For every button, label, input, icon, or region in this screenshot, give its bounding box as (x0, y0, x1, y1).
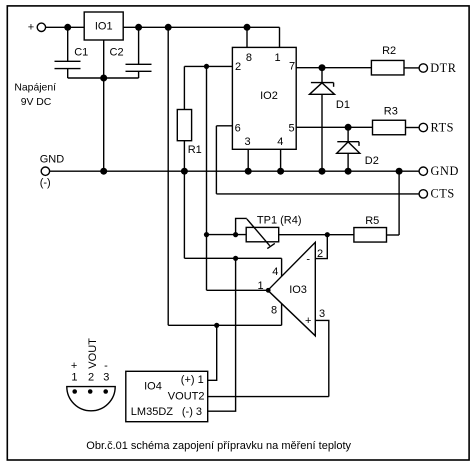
ic IO2 (232, 47, 296, 149)
svg-text:6: 6 (235, 123, 241, 135)
svg-text:5: 5 (289, 123, 295, 135)
svg-text:R5: R5 (365, 215, 379, 227)
svg-text:1: 1 (274, 52, 280, 64)
svg-text:DTR: DTR (430, 61, 457, 75)
svg-text:Obr.č.01 schéma zapojení přípr: Obr.č.01 schéma zapojení přípravku na mě… (86, 440, 351, 452)
terminal RTS (419, 123, 427, 131)
junction IO4 supply (214, 323, 219, 328)
wire IO3 pin3 stub (315, 320, 329, 396)
wire IO2 pin8 drop (246, 27, 248, 47)
diode D2 zener (347, 127, 349, 141)
wire Vcc down-line to IO3 pin8 rail (167, 27, 169, 325)
svg-text:-: - (306, 253, 310, 265)
svg-text:LM35DZ: LM35DZ (131, 406, 173, 418)
svg-text:CTS: CTS (431, 187, 455, 201)
wire IO1 out to IO2 pin1 rail (123, 26, 279, 28)
svg-text:C1: C1 (74, 47, 88, 59)
svg-text:(-) 3: (-) 3 (182, 406, 202, 418)
wire R5 up to GND bus (398, 171, 400, 235)
op-amp IO3 (268, 242, 316, 335)
junction IO3 pin2 net (325, 232, 330, 237)
svg-text:C2: C2 (110, 47, 124, 59)
junction GND-D1 (319, 168, 326, 175)
diode D1 zener (321, 68, 323, 83)
svg-text:D2: D2 (365, 155, 379, 167)
junction caps common (100, 75, 107, 82)
svg-text:IO2: IO2 (260, 90, 278, 102)
wire IO2 pin2 (184, 65, 232, 67)
svg-text:GND: GND (431, 164, 459, 178)
svg-text:IO4: IO4 (144, 381, 162, 393)
wire TP1 wiper loop (236, 218, 247, 234)
svg-text:TP1 (R4): TP1 (R4) (257, 214, 302, 226)
junction GND-R1 (181, 168, 188, 175)
svg-text:IO3: IO3 (289, 284, 307, 296)
wire GND bus (50, 170, 420, 172)
capacitor C1 (67, 27, 69, 61)
svg-text:GND: GND (40, 154, 64, 166)
resistor R1 (183, 66, 185, 109)
junction IO3 pin1 output (266, 288, 271, 293)
sensor pin dots (72, 389, 77, 394)
junction IO2 pin8 (244, 24, 251, 31)
svg-text:1: 1 (258, 280, 264, 292)
wire IO4 pin3 to minus net (208, 258, 236, 411)
wire IO1 ground pin (103, 40, 105, 78)
junction pin2 feedback (204, 64, 209, 69)
svg-text:(+) 1: (+) 1 (181, 374, 204, 386)
resistor R5 (354, 228, 387, 243)
junction TP1 wiper net (233, 232, 238, 237)
svg-text:4: 4 (277, 136, 283, 148)
resistor R2 (371, 60, 404, 74)
svg-text:D1: D1 (336, 99, 350, 111)
svg-text:2: 2 (88, 372, 94, 384)
terminal CTS (419, 190, 427, 198)
junction GND-caps (100, 168, 107, 175)
svg-text:2: 2 (235, 61, 241, 73)
svg-text:VOUT2: VOUT2 (168, 391, 205, 403)
wire IO3 pin3 to IO4 VOUT (208, 396, 329, 398)
svg-text:Napájení: Napájení (14, 83, 56, 94)
svg-text:+: + (28, 21, 34, 33)
junction pin5-D2 (345, 124, 352, 131)
junction GND-IO2 pin3 (245, 168, 252, 175)
svg-text:(-): (-) (40, 177, 51, 189)
junction GND-D2 (345, 168, 352, 175)
terminal DTR (419, 64, 427, 72)
wire IO2 pin7 (296, 67, 371, 69)
wire IO2 pin5 (296, 126, 372, 128)
terminal GND left (41, 167, 49, 175)
terminal + (supply plus) (37, 23, 45, 31)
svg-text:8: 8 (246, 52, 252, 64)
svg-text:3: 3 (244, 136, 250, 148)
svg-text:1: 1 (71, 372, 77, 384)
sensor LM35 TO-92 case (67, 387, 115, 411)
svg-text:+: + (305, 315, 311, 327)
wire feedback vertical pin2 to IO3 pin1 (206, 66, 208, 290)
regulator IO1 (84, 12, 123, 40)
wire IO3 pin2 stub (315, 235, 327, 259)
wire R1 bottom to IO3 pin4 (184, 257, 281, 259)
wire IO2 pin1 drop (279, 27, 281, 47)
junction GND-IO2 pin4 (277, 168, 284, 175)
wire common down to GND bus (103, 78, 105, 171)
svg-text:+: + (71, 360, 77, 372)
ic IO4 LM35DZ (126, 371, 208, 421)
junction pin4 net (233, 256, 238, 261)
svg-text:VOUT: VOUT (87, 338, 99, 369)
wire IO3 pin4/pin8 vertical (281, 258, 283, 325)
junction pin7-D1 (319, 64, 326, 71)
wire supply plus to IO1 (46, 26, 84, 28)
wire IO4 pin1 supply (208, 325, 217, 380)
svg-text:R1: R1 (188, 144, 202, 156)
svg-text:IO1: IO1 (95, 21, 113, 33)
wire IO2 pin6 (216, 125, 232, 127)
trimmer TP1 (R4) (246, 227, 279, 241)
wire IO2 pin3 drop (247, 149, 249, 171)
svg-text:7: 7 (289, 61, 295, 73)
wire CTS line (216, 193, 419, 195)
svg-text:R2: R2 (382, 45, 396, 57)
svg-text:-: - (104, 360, 108, 372)
wire TP1 line (207, 234, 247, 236)
wire IO2 pin4 drop (280, 149, 282, 171)
capacitor C2 (138, 27, 140, 64)
terminal GND right (419, 167, 427, 175)
junction GND-R5 (396, 168, 403, 175)
svg-text:8: 8 (271, 305, 277, 317)
svg-text:3: 3 (103, 372, 109, 384)
svg-text:4: 4 (272, 266, 278, 278)
svg-text:3: 3 (319, 308, 325, 320)
junction feedback TP1 line (204, 232, 209, 237)
svg-text:RTS: RTS (431, 120, 455, 134)
svg-text:9V DC: 9V DC (21, 97, 52, 108)
wire TP1 to R5 (279, 234, 354, 236)
resistor R3 (373, 120, 406, 135)
junction C2 top (135, 24, 142, 31)
svg-text:2: 2 (317, 248, 323, 260)
junction C1 top (64, 24, 71, 31)
junction Vcc down-line (165, 24, 172, 31)
wire capacitor commons (68, 77, 139, 79)
svg-text:R3: R3 (384, 105, 398, 117)
